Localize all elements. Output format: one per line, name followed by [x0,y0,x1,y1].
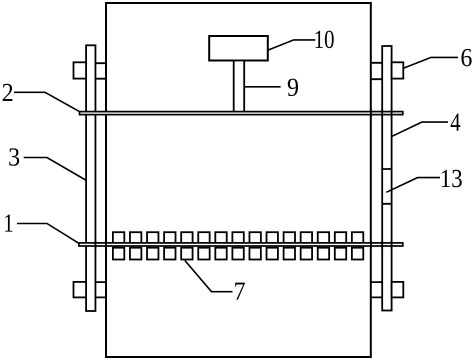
left top clamp bracket [95,63,106,78]
left top clamp tab [74,62,87,78]
right guide rail [382,46,391,311]
leader 7 [185,261,233,292]
comb teeth 7 [113,232,363,259]
leader 4 [392,122,448,136]
left bottom clamp bracket [95,282,106,297]
frame body [106,3,371,357]
leader 10 [268,40,315,50]
right top clamp tab [392,62,404,78]
left rail inner line and frame left edge crossing bar 1 [95,241,106,249]
label 2 [3,84,13,101]
label 13 [442,170,462,187]
left guide rail [86,45,95,311]
leader lines [14,40,458,292]
frame right edge and right rail lines crossing bar 2 [371,110,392,118]
label 1 [5,214,12,231]
right bottom clamp bracket [371,282,382,297]
lower cross bar 1 [79,243,403,246]
label 6 [461,49,471,66]
leader 2 [14,92,79,111]
label 7 [235,283,245,300]
right bottom clamp tab [392,282,404,298]
frame right edge and right rail lines crossing bar 1 [371,241,392,249]
left bottom clamp tab [74,282,87,298]
right top clamp bracket [371,63,382,79]
label 4 [451,114,461,131]
leader 3 [24,158,86,181]
leader 1 [17,224,79,244]
vibration motor box 10 [209,36,268,61]
label 3 [9,148,19,165]
rail segment 13 marks [382,169,391,204]
motor stem 9 [234,61,245,113]
leader 13 [386,178,440,193]
upper cross bar 2 [80,112,403,115]
leader 6 [403,57,458,68]
label 10 [316,31,334,49]
label 9 [288,79,298,96]
leader 9 [244,86,280,88]
